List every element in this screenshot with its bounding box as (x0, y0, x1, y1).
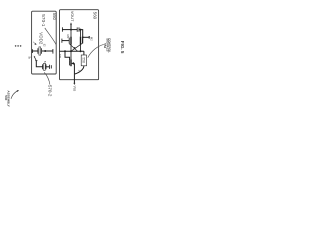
branch1 left terminal plate (31, 49, 33, 53)
svg-text:560: 560 (92, 12, 97, 20)
svg-text:500: 500 (4, 95, 8, 100)
arrow from ASSEMBLY label (11, 91, 18, 99)
resonator bank box 550 (32, 11, 57, 74)
top rail terminal plate (61, 27, 63, 31)
node dot gate stub (82, 36, 84, 38)
gate stub wire y=37.3 (83, 36, 89, 38)
Vout arrow up (70, 24, 72, 30)
M3 source wire down to Vss (73, 63, 75, 79)
crystal X1 plate (41, 48, 43, 54)
wire rail to resistor top (83, 51, 85, 55)
M3 source stub (73, 62, 74, 64)
coupling capacitor plates on rail (76, 27, 78, 31)
transistor M2 gate bar (82, 38, 84, 43)
M1 gate input plate (61, 39, 63, 43)
transistor M1 gate bar (68, 38, 70, 44)
svg-text:550: 550 (52, 13, 57, 21)
wire top rail (62, 29, 77, 31)
svg-text:M1: M1 (66, 35, 70, 39)
svg-text:558: 558 (82, 57, 86, 63)
leader for control signals (88, 44, 104, 57)
switch blade branch2 (34, 57, 36, 61)
transistor M1 drain wire (70, 30, 72, 37)
branch1 right end plate (52, 49, 54, 54)
capacitor plates branch2 end (49, 65, 51, 69)
gate stub end plate (88, 36, 90, 39)
M3 source arrow (71, 62, 74, 65)
node dot Vout on rail (70, 29, 72, 31)
crystal X1: plate (45, 64, 47, 69)
node dots on bottom rail (64, 50, 66, 52)
tiny marks on wire (78, 69, 81, 72)
crystal X1: body box (44, 63, 46, 70)
oscillator core box 560 (60, 10, 99, 80)
cross-coupling wire 2 (71, 43, 83, 51)
svg-text:Vss: Vss (73, 86, 77, 92)
resistor R box (81, 55, 86, 66)
svg-text:570-2: 570-2 (47, 85, 52, 97)
svg-text:FIG. 5: FIG. 5 (120, 41, 125, 54)
svg-text:VOUT: VOUT (70, 11, 74, 22)
node dot branch1 (44, 50, 46, 52)
crystal X1 plate (37, 48, 39, 54)
label CONTROL SIGNALS 552 (103, 38, 112, 53)
crystal X1 body box (39, 47, 41, 55)
wire resistor bottom to Vss line (75, 66, 84, 74)
wire branch1 left (32, 50, 37, 52)
transistor M3 channel bar (70, 59, 72, 66)
transistor M3 gate feed (65, 51, 70, 60)
ellipsis (more resonators) (15, 45, 22, 47)
transistor M2 channel bar (80, 37, 82, 45)
transistor M2 source wire (80, 45, 82, 52)
crystal X1: plate (42, 64, 44, 69)
transistor M2 drain wire (80, 30, 82, 37)
transistor M3 gate bar (69, 60, 71, 65)
wire branch2 L (36, 61, 42, 67)
node dot at crossing (74, 47, 76, 49)
leader for 570-2 (44, 72, 50, 84)
wire branch1 mid (42, 50, 53, 52)
switch pivot tick (35, 60, 37, 62)
svg-text:M2: M2 (90, 37, 94, 41)
wire branch2 right (46, 66, 49, 68)
svg-text:570-1: 570-1 (40, 14, 46, 27)
Vss arrow below box (73, 80, 75, 84)
leader for 570-1 (45, 28, 57, 45)
transistor M1 source wire (70, 45, 72, 52)
svg-text:M3: M3 (58, 54, 62, 58)
svg-text:552: 552 (103, 43, 107, 48)
cross-coupling wire 1 (69, 44, 77, 52)
M3 drain wire up to rail (70, 51, 72, 59)
M1 gate wire to left plate (62, 40, 69, 42)
node dot rail right (80, 29, 82, 31)
label ASSEMBLY 500 (4, 90, 10, 106)
svg-text:VDD2: VDD2 (38, 32, 43, 45)
wire rail right with corner down (79, 30, 83, 44)
arrow from Vdd2 label (33, 42, 35, 44)
bottom rail (60, 50, 84, 52)
transistor M1 channel bar (70, 37, 72, 45)
